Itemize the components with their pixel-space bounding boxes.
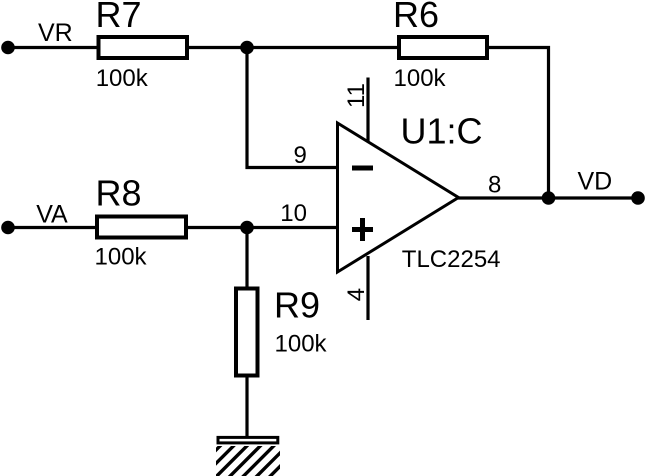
svg-text:VA: VA — [36, 200, 68, 228]
resistor R7 — [99, 37, 188, 58]
svg-text:R6: R6 — [393, 0, 439, 35]
pin 11 wire — [366, 78, 369, 142]
node A junction — [240, 41, 254, 55]
resistor R9 — [236, 289, 258, 376]
svg-text:11: 11 — [343, 83, 370, 108]
svg-text:100k: 100k — [275, 331, 328, 358]
svg-text:R9: R9 — [274, 285, 320, 326]
svg-text:9: 9 — [294, 142, 307, 169]
wire R6 to output node — [487, 48, 549, 199]
wire node B to R9 — [245, 228, 248, 291]
wire R9 to ground — [245, 374, 248, 437]
op-amp U1:C body — [338, 123, 459, 272]
wire R7 to node A — [187, 46, 250, 49]
wire VA to R8 — [8, 226, 100, 229]
node B junction — [240, 221, 254, 235]
wire output pin 8 to VD — [458, 196, 638, 199]
terminal dot VD — [631, 191, 645, 205]
svg-text:4: 4 — [343, 288, 370, 301]
pin 4 wire — [366, 256, 369, 320]
svg-text:R7: R7 — [96, 0, 142, 35]
svg-text:100k: 100k — [96, 65, 149, 92]
terminal dot VR — [1, 41, 15, 55]
svg-text:100k: 100k — [394, 65, 447, 92]
op-amp plus input symbol — [352, 218, 373, 241]
svg-text:10: 10 — [280, 200, 307, 227]
resistor R8 — [97, 217, 186, 238]
svg-text:8: 8 — [488, 172, 501, 199]
svg-text:100k: 100k — [95, 243, 148, 270]
resistor R6 — [399, 37, 487, 58]
svg-text:TLC2254: TLC2254 — [402, 246, 501, 273]
op-amp minus input symbol — [352, 166, 373, 171]
svg-text:U1:C: U1:C — [401, 110, 483, 151]
wire node A to pin 9 — [247, 46, 339, 168]
svg-text:VD: VD — [578, 167, 613, 195]
ground — [186, 437, 302, 476]
wire VR to R7 — [8, 46, 100, 49]
svg-text:VR: VR — [38, 19, 73, 47]
wire R8 to pin 10 — [186, 226, 339, 229]
output node junction — [542, 191, 556, 205]
terminal dot VA — [1, 221, 15, 235]
svg-text:R8: R8 — [96, 173, 142, 214]
wire node A to R6 — [247, 46, 400, 49]
